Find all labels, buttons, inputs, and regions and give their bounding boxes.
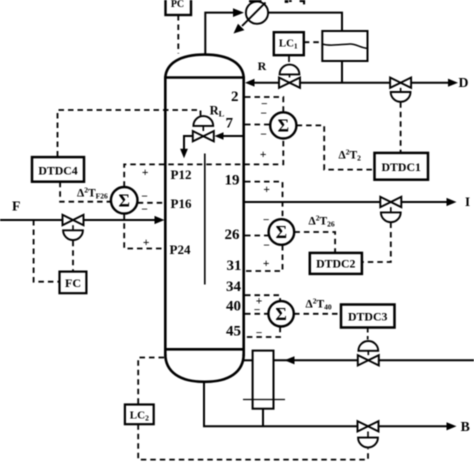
svg-text:FC: FC (65, 276, 81, 290)
svg-text:RL: RL (210, 104, 225, 119)
svg-text:−: − (263, 240, 270, 252)
svg-text:+: + (263, 258, 270, 270)
svg-text:40: 40 (226, 299, 241, 315)
svg-text:DTDC1: DTDC1 (382, 160, 421, 174)
svg-text:P24: P24 (170, 242, 191, 257)
svg-text:DTDC4: DTDC4 (38, 163, 77, 177)
svg-text:−: − (141, 204, 148, 216)
svg-text:I: I (465, 194, 470, 209)
svg-text:−: − (263, 215, 270, 227)
svg-text:Σ: Σ (275, 304, 286, 324)
svg-text:Σ: Σ (278, 115, 289, 135)
svg-text:−: − (256, 328, 263, 340)
svg-text:+: + (142, 167, 149, 179)
svg-text:7: 7 (226, 116, 234, 132)
svg-text:DTDC3: DTDC3 (348, 309, 387, 323)
svg-text:26: 26 (225, 227, 241, 243)
svg-text:DTDC2: DTDC2 (316, 257, 355, 271)
svg-text:P12: P12 (171, 167, 192, 182)
svg-text:P16: P16 (171, 196, 192, 211)
svg-text:−: − (260, 108, 267, 120)
svg-text:LC1: LC1 (279, 38, 298, 51)
svg-text:+: + (143, 237, 150, 249)
svg-text:45: 45 (226, 324, 241, 340)
svg-text:Σ: Σ (276, 222, 287, 242)
svg-text:R: R (258, 59, 267, 73)
svg-text:Δ2T40: Δ2T40 (306, 297, 332, 312)
svg-text:34: 34 (226, 279, 242, 295)
svg-text:F: F (12, 199, 20, 214)
svg-text:Δ2T2: Δ2T2 (339, 148, 362, 163)
svg-text:+: + (263, 184, 270, 196)
svg-text:31: 31 (227, 258, 242, 274)
svg-text:Δ2TF26: Δ2TF26 (77, 185, 108, 200)
svg-text:2: 2 (231, 89, 239, 105)
svg-text:B: B (461, 419, 470, 434)
svg-text:19: 19 (225, 173, 240, 189)
svg-text:−: − (141, 191, 148, 203)
svg-text:Δ2T26: Δ2T26 (309, 214, 335, 229)
svg-text:Σ: Σ (118, 190, 129, 210)
svg-text:LC2: LC2 (130, 410, 149, 423)
svg-text:−: − (260, 129, 267, 141)
svg-text:−: − (254, 305, 261, 317)
svg-text:D: D (459, 75, 469, 90)
svg-text:+: + (260, 149, 267, 161)
svg-text:PC: PC (171, 0, 184, 10)
